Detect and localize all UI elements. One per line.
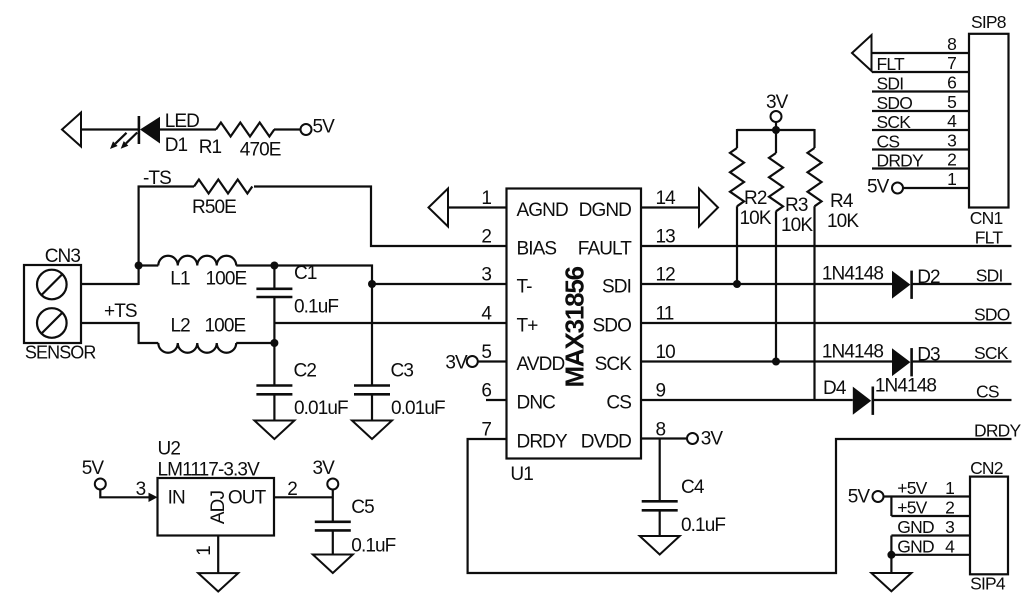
wire D2 to SDI net	[912, 283, 1012, 285]
svg-text:10: 10	[656, 342, 676, 363]
svg-text:2: 2	[287, 479, 297, 500]
svg-text:SDI: SDI	[976, 266, 1003, 286]
svg-text:R1: R1	[199, 137, 222, 158]
svg-text:6: 6	[481, 381, 491, 402]
svg-text:0.1uF: 0.1uF	[294, 297, 338, 318]
op IC U1 MAX31856 box	[507, 189, 642, 459]
wire SDO net	[641, 322, 1012, 324]
regulator U2 box	[158, 478, 275, 536]
svg-text:1: 1	[947, 169, 956, 189]
svg-text:DRDY: DRDY	[517, 431, 568, 452]
svg-text:IN: IN	[168, 488, 185, 509]
node pullup rail	[772, 126, 780, 134]
svg-text:11: 11	[656, 304, 674, 325]
svg-text:CS: CS	[877, 132, 900, 152]
svg-text:3V: 3V	[445, 353, 468, 374]
svg-text:AGND: AGND	[517, 200, 568, 221]
svg-text:+5V: +5V	[897, 498, 927, 518]
svg-text:SCK: SCK	[877, 112, 912, 132]
wire CN1 pin8	[872, 52, 970, 54]
svg-text:2: 2	[945, 498, 954, 518]
svg-text:CN1: CN1	[970, 208, 1003, 228]
wire LED anode to ground arrow	[81, 128, 138, 130]
wire 3V terminal to C5	[332, 490, 334, 522]
svg-text:8: 8	[947, 34, 956, 54]
terminal 5V (CN1 pin1)	[892, 183, 903, 194]
ground (U2 ADJ)	[198, 573, 238, 591]
svg-text:SDI: SDI	[877, 74, 904, 94]
svg-text:U1: U1	[510, 464, 533, 485]
wire pin1 AGND stub	[448, 206, 507, 208]
svg-text:5: 5	[481, 342, 491, 363]
wire SCK pin10 to D3	[641, 360, 892, 362]
resistor R50E	[194, 180, 252, 194]
capacitor C4	[642, 439, 678, 537]
node C1 top / T-	[270, 262, 278, 270]
svg-text:13: 13	[656, 227, 676, 248]
svg-text:3: 3	[947, 131, 956, 151]
svg-text:R4: R4	[830, 191, 854, 212]
wire CN1 pin1	[903, 187, 969, 189]
svg-text:3V: 3V	[313, 458, 336, 479]
wire CN3 pin1 to -TS node	[81, 283, 139, 285]
wire CN1 pin5 SDO	[872, 110, 969, 112]
node GND tie	[887, 551, 895, 559]
svg-text:DNC: DNC	[517, 392, 556, 413]
connector CN2 box	[970, 477, 1008, 575]
svg-text:6: 6	[947, 73, 956, 93]
svg-text:10K: 10K	[781, 215, 813, 236]
wire +5V tie pin1-pin2	[890, 497, 892, 517]
svg-text:C1: C1	[294, 263, 317, 284]
LED D1 triangle	[140, 117, 160, 144]
svg-text:FLT: FLT	[975, 228, 1004, 248]
svg-text:SDO: SDO	[974, 305, 1010, 325]
svg-text:D1: D1	[165, 135, 188, 156]
wire C1 bottom to L2 node	[273, 323, 275, 343]
svg-text:9: 9	[656, 381, 666, 402]
svg-text:SDO: SDO	[877, 93, 913, 113]
ground (C2)	[254, 421, 294, 440]
svg-text:100E: 100E	[206, 269, 247, 290]
wire T- to pin 3	[372, 283, 507, 285]
svg-text:C2: C2	[294, 361, 317, 382]
wire CN2 pin3	[891, 534, 970, 536]
svg-text:1: 1	[945, 478, 954, 498]
node R2 SDI	[733, 280, 741, 288]
wire T+ row to pin 4	[274, 322, 507, 324]
wire CN2 pin4	[891, 554, 970, 556]
terminal 5V (CN2)	[873, 491, 884, 502]
svg-text:SDO: SDO	[593, 315, 632, 336]
svg-text:AVDD: AVDD	[517, 354, 565, 375]
svg-text:SDI: SDI	[602, 276, 631, 297]
svg-text:2: 2	[947, 150, 956, 170]
svg-text:1: 1	[481, 188, 491, 209]
wire 5V to U2 IN	[100, 490, 150, 498]
wire CS pin9 to D4	[641, 399, 853, 401]
wire LED to R1	[160, 128, 216, 130]
wire FAULT net FLT	[641, 245, 1012, 247]
wire AVDD stub	[478, 360, 507, 362]
wire CN1 pin2 DRDY	[872, 167, 969, 169]
svg-text:D4: D4	[823, 378, 847, 399]
resistor R3	[769, 130, 783, 362]
svg-text:SENSOR: SENSOR	[25, 343, 97, 363]
diode D2	[892, 271, 912, 299]
ground arrow (net AGND) pin1	[429, 189, 449, 227]
wire 3V to pullup rail	[775, 122, 777, 131]
terminal 3V (pullups)	[771, 111, 782, 122]
svg-text:T+: T+	[517, 315, 539, 336]
terminal 3V (DVDD)	[687, 433, 698, 444]
wire R50E to BIAS corner	[254, 187, 507, 247]
svg-text:5: 5	[947, 92, 956, 112]
resistor R4	[808, 129, 822, 400]
terminal 3V (U2 out)	[327, 479, 338, 490]
svg-text:L2: L2	[171, 316, 191, 337]
connector CN3 box	[24, 265, 81, 343]
svg-text:4: 4	[945, 536, 955, 556]
svg-text:GND: GND	[897, 517, 934, 537]
svg-text:CS: CS	[606, 392, 631, 413]
svg-text:DGND: DGND	[579, 200, 632, 221]
svg-text:10K: 10K	[827, 211, 859, 232]
wire R1 to 5V terminal	[274, 128, 301, 130]
wire U2 ADJ pin	[217, 536, 219, 574]
svg-text:7: 7	[947, 53, 956, 73]
wire SDI pin12 to D2	[641, 283, 892, 285]
ground (C5)	[313, 555, 353, 574]
svg-text:3: 3	[136, 479, 146, 500]
svg-text:R50E: R50E	[192, 197, 236, 218]
ground (C4)	[640, 536, 680, 555]
wire CN1 pin6 SDI	[872, 90, 969, 92]
svg-text:7: 7	[481, 420, 491, 441]
wire D3 to SCK net	[912, 360, 1012, 362]
svg-text:R3: R3	[785, 195, 808, 216]
inductor L1	[158, 256, 236, 266]
svg-text:3: 3	[481, 265, 491, 286]
svg-text:3: 3	[945, 517, 954, 537]
wire node to L1	[139, 264, 159, 266]
diode D4	[853, 387, 873, 415]
capacitor C5	[315, 522, 351, 555]
svg-text:U2: U2	[158, 439, 181, 460]
svg-text:2: 2	[481, 227, 491, 248]
CN3 screw terminal 1	[37, 270, 67, 300]
svg-text:LM1117-3.3V: LM1117-3.3V	[158, 460, 261, 481]
node L2 / C2 junction	[270, 339, 278, 347]
svg-text:OUT: OUT	[228, 488, 267, 509]
svg-text:100E: 100E	[205, 316, 246, 337]
svg-text:5V: 5V	[313, 117, 336, 138]
wire DVDD pin8 to 3V terminal	[641, 437, 687, 439]
wire CN1 pin7 FLT	[872, 71, 969, 73]
svg-text:470E: 470E	[240, 140, 281, 161]
svg-text:4: 4	[947, 111, 957, 131]
wire GND tie pin3-pin4-ground	[890, 536, 892, 574]
svg-text:14: 14	[656, 188, 677, 209]
svg-text:+5V: +5V	[897, 478, 927, 498]
svg-text:12: 12	[656, 265, 676, 286]
svg-text:5V: 5V	[82, 458, 105, 479]
svg-text:GND: GND	[897, 536, 934, 556]
svg-text:FLT: FLT	[877, 54, 906, 74]
inductor L2	[158, 343, 236, 353]
CN3 screw terminal 2	[37, 308, 67, 338]
wire U2 OUT to 3V	[274, 496, 333, 498]
LED D1 cathode bar	[138, 116, 141, 144]
svg-text:3V: 3V	[766, 92, 789, 113]
svg-text:L1: L1	[170, 269, 190, 290]
resistor R1	[216, 123, 274, 137]
ground (CN2)	[871, 573, 911, 591]
wire CN2 pin1	[884, 495, 971, 497]
resistor R2	[730, 129, 744, 284]
svg-text:DRDY: DRDY	[877, 151, 925, 171]
wire L2 to T+ node	[236, 342, 274, 344]
svg-text:T-: T-	[517, 276, 533, 297]
node T- line	[368, 280, 376, 288]
wire pin14 DGND stub	[641, 206, 699, 208]
wire DRDY pin7 path	[468, 439, 1012, 573]
wire -TS to R50E	[138, 185, 194, 187]
node R3 SCK	[772, 358, 780, 366]
terminal 5V (U2 in)	[95, 479, 106, 490]
terminal 3V (AVDD)	[467, 356, 478, 367]
svg-text:10K: 10K	[740, 208, 772, 229]
node -TS / L1 junction	[135, 262, 143, 270]
ground arrow (net AGND) at LED	[62, 113, 81, 147]
wire pullup rail	[737, 129, 815, 131]
svg-text:SCK: SCK	[595, 354, 633, 375]
wire CN1 pin3 CS	[872, 148, 969, 150]
svg-text:1N4148: 1N4148	[822, 342, 883, 363]
wire CN2 pin2	[891, 515, 970, 517]
svg-text:CS: CS	[976, 382, 999, 402]
svg-text:0.1uF: 0.1uF	[681, 515, 725, 536]
wire DNC stub	[486, 399, 507, 401]
svg-text:SIP4: SIP4	[970, 574, 1006, 594]
svg-text:FAULT: FAULT	[578, 238, 633, 259]
wire CN1 pin4 SCK	[872, 129, 969, 131]
svg-text:0.1uF: 0.1uF	[351, 536, 395, 557]
svg-text:4: 4	[481, 304, 492, 325]
svg-text:BIAS: BIAS	[517, 238, 557, 259]
wire -TS node vertical	[138, 186, 140, 286]
svg-text:0.01uF: 0.01uF	[391, 398, 445, 419]
svg-text:SCK: SCK	[974, 343, 1009, 363]
svg-text:R2: R2	[744, 188, 767, 209]
svg-text:C4: C4	[681, 477, 705, 498]
svg-text:3V: 3V	[701, 429, 724, 450]
svg-text:CN2: CN2	[970, 458, 1003, 478]
svg-text:5V: 5V	[867, 177, 890, 198]
wire D4 to CS net	[873, 399, 1012, 401]
svg-text:1N4148: 1N4148	[822, 264, 883, 285]
svg-text:+TS: +TS	[104, 301, 137, 322]
ground arrow (CN1 pin8)	[852, 35, 872, 71]
svg-text:8: 8	[656, 420, 666, 441]
connector CN1 box	[969, 34, 1009, 208]
terminal 5V (LED)	[301, 124, 312, 135]
arrowhead into IN	[149, 493, 158, 502]
svg-text:C3: C3	[391, 361, 414, 382]
wire CN3 pin2 to L2	[81, 323, 158, 343]
svg-text:1: 1	[194, 546, 215, 556]
svg-text:CN3: CN3	[45, 246, 81, 267]
capacitor C2	[256, 343, 292, 421]
svg-text:0.01uF: 0.01uF	[294, 398, 348, 419]
wire L1 to C1 node	[236, 264, 274, 266]
wire C1 node to T- jog	[274, 266, 372, 285]
LED D1 emission arrow 1	[110, 133, 127, 149]
svg-text:5V: 5V	[848, 487, 871, 508]
capacitor C1	[256, 266, 292, 324]
capacitor C3	[354, 284, 390, 421]
svg-text:DVDD: DVDD	[581, 431, 631, 452]
svg-text:C5: C5	[351, 497, 374, 518]
svg-text:1N4148: 1N4148	[875, 376, 936, 397]
ground arrow (net DGND) pin14	[699, 189, 718, 227]
ground (C3)	[352, 421, 392, 440]
LED D1 emission arrow 2	[121, 133, 138, 149]
svg-text:DRDY: DRDY	[974, 421, 1022, 441]
diode D3	[892, 348, 912, 376]
svg-text:SIP8: SIP8	[971, 12, 1006, 32]
svg-text:ADJ: ADJ	[208, 491, 229, 525]
